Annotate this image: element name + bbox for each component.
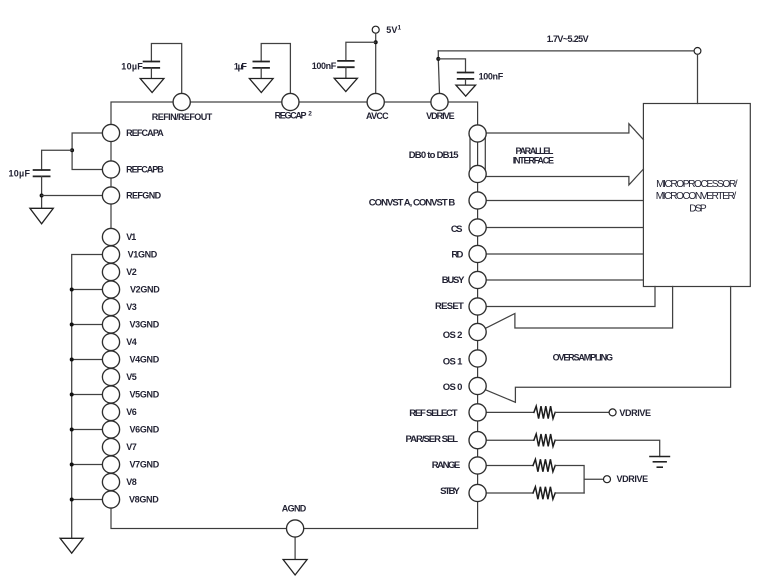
ground VxGND bus (60, 538, 83, 553)
wire parallel bus top (486, 124, 643, 140)
capacitor C2 1uF (253, 62, 269, 68)
wire R4 to junction (555, 492, 584, 494)
wire loop to C5 (42, 150, 73, 170)
wire R3 to junction (555, 466, 584, 494)
svg-text:OS 0: OS 0 (443, 382, 463, 393)
svg-text:10µF: 10µF (121, 61, 143, 71)
svg-text:RD: RD (451, 250, 463, 261)
svg-text:RANGE: RANGE (432, 460, 460, 471)
wire OS0 pennant to box (486, 287, 731, 403)
capacitor C4 100nF (458, 73, 474, 79)
svg-text:REFCAPA: REFCAPA (126, 128, 164, 138)
wire supply to microprocessor box (697, 54, 699, 103)
svg-text:REGCAP: REGCAP (275, 110, 307, 120)
wire V3GND (72, 324, 103, 326)
wire 5V to AVCC (375, 33, 377, 93)
ground AGND (283, 560, 307, 576)
wire parallel bus bottom (486, 169, 644, 185)
bus DB0-DB15 stadium (469, 135, 471, 173)
resistor R3 (533, 459, 555, 471)
svg-text:V5GND: V5GND (130, 390, 160, 400)
junction dot loop (70, 148, 74, 152)
wire V5GND (72, 394, 103, 396)
svg-text:INTERFACE: INTERFACE (513, 156, 554, 166)
svg-text:1: 1 (398, 24, 402, 31)
wire V1GND bus (72, 255, 103, 539)
pin circles left: REFCAPA REFCAPB REFGND V1-V8GND (102, 124, 119, 508)
wire C1 to ground (150, 68, 152, 79)
wire REFIN/REFOUT to C1 (151, 44, 181, 94)
junction dots VxGND bus (70, 288, 74, 502)
terminal 1.7V~5.25V (694, 48, 701, 55)
svg-text:V8: V8 (126, 477, 137, 487)
wire OS2 pennant to box (486, 287, 673, 329)
wire V4GND (72, 359, 103, 361)
pin circles top: REFIN REGCAP AVCC VDRIVE (173, 93, 448, 110)
svg-text:100nF: 100nF (479, 71, 504, 81)
wire junction to VDRIVE terminal (584, 478, 603, 480)
wire V6GND (72, 429, 103, 431)
ground under C4 (456, 85, 476, 96)
svg-text:REFCAPB: REFCAPB (126, 165, 164, 175)
svg-text:PAR/SER SEL: PAR/SER SEL (406, 434, 459, 445)
svg-text:V1: V1 (126, 232, 136, 242)
wire RESET to box (486, 287, 655, 307)
wire REGCAP to C2 (261, 44, 290, 94)
svg-text:VDRIVE: VDRIVE (617, 474, 649, 484)
resistor R4 (533, 487, 555, 499)
svg-text:2: 2 (308, 111, 312, 118)
svg-text:V5: V5 (126, 372, 137, 382)
svg-text:V7GND: V7GND (130, 460, 160, 470)
resistor R1 (534, 406, 555, 418)
svg-text:REFIN/REFOUT: REFIN/REFOUT (152, 112, 213, 122)
junction dot VDRIVE branch (436, 57, 440, 61)
terminal VDRIVE (REF SELECT) (609, 409, 616, 416)
wire CS to box (486, 227, 643, 229)
wire RD to box (486, 253, 643, 255)
svg-text:V2GND: V2GND (130, 285, 160, 295)
pin circles right (469, 125, 486, 502)
svg-text:V4: V4 (126, 337, 137, 347)
svg-text:5V: 5V (386, 25, 397, 35)
resistor R2 (534, 434, 555, 446)
svg-text:VDRIVE: VDRIVE (619, 408, 651, 418)
svg-text:OS 2: OS 2 (443, 330, 463, 341)
svg-text:MICROPROCESSOR/: MICROPROCESSOR/ (656, 179, 738, 190)
wire C2 to ground (260, 68, 262, 79)
svg-text:OVERSAMPLING: OVERSAMPLING (553, 353, 613, 363)
wire PAR/SER SEL to R2 (486, 439, 534, 441)
junction dot REFGND (40, 194, 44, 198)
svg-text:V7: V7 (126, 442, 137, 452)
svg-text:1.7V~5.25V: 1.7V~5.25V (547, 34, 589, 44)
terminal VDRIVE (RANGE/STBY) (604, 476, 611, 483)
svg-text:V6: V6 (126, 407, 137, 417)
net 1.7V~5.25V supply line (438, 50, 697, 52)
svg-text:REFGND: REFGND (126, 191, 162, 201)
wire REFGND pin (42, 195, 103, 197)
ground under C2 (249, 79, 273, 93)
wire to C3 (346, 42, 376, 61)
chip U1 (ADC) body (111, 102, 478, 529)
svg-text:MICROCONVERTER/: MICROCONVERTER/ (656, 191, 737, 202)
svg-text:V3: V3 (126, 302, 137, 312)
capacitor C5 10uF (34, 170, 50, 176)
svg-text:RESET: RESET (435, 301, 464, 312)
wire to C4 (438, 59, 465, 73)
svg-text:PARALLEL: PARALLEL (516, 146, 554, 156)
svg-text:CONVST A, CONVST B: CONVST A, CONVST B (369, 198, 456, 209)
svg-text:VDRIVE: VDRIVE (426, 111, 455, 121)
wire AGND to ground (294, 537, 296, 559)
wire V8GND (72, 499, 103, 501)
svg-text:10µF: 10µF (9, 169, 31, 179)
svg-text:AVCC: AVCC (366, 111, 389, 121)
svg-text:V3GND: V3GND (130, 320, 160, 330)
capacitor C1 10uF (144, 62, 160, 68)
svg-text:REF SELECT: REF SELECT (409, 408, 457, 419)
svg-text:100nF: 100nF (312, 61, 337, 71)
wire CONVST to box (486, 200, 643, 202)
microprocessor box U2 (643, 104, 750, 287)
svg-text:V8GND: V8GND (129, 495, 159, 505)
svg-text:AGND: AGND (282, 503, 307, 513)
ground under C3 (334, 78, 357, 91)
wire C4 to ground (465, 79, 467, 85)
svg-text:V1GND: V1GND (128, 250, 158, 260)
junction dot AVCC branch (374, 40, 378, 44)
wire supply to VDRIVE pin (438, 51, 439, 94)
svg-text:DSP: DSP (689, 203, 707, 214)
terminal 5V supply (372, 26, 379, 33)
svg-text:OS 1: OS 1 (443, 357, 463, 368)
capacitor C3 100nF (338, 61, 354, 67)
wire R1 to VDRIVE terminal (555, 411, 609, 413)
wire C5 to REFGND (41, 176, 43, 208)
wire REF SELECT to R1 (486, 411, 534, 413)
wire V7GND (72, 464, 103, 466)
wire STBY to R4 (486, 492, 533, 494)
svg-text:STBY: STBY (440, 486, 460, 497)
wire REFCAPA/REFCAPB loop (72, 133, 102, 170)
svg-text:V6GND: V6GND (130, 425, 160, 435)
wire RANGE to R3 (486, 465, 533, 467)
svg-text:DB0 to DB15: DB0 to DB15 (409, 150, 460, 161)
wire BUSY to box (486, 279, 643, 281)
label MICROPROCESSOR/MICROCONVERTER/DSP (656, 179, 738, 214)
svg-text:V2: V2 (126, 267, 137, 277)
wire R2 to signal ground (555, 440, 660, 456)
svg-text:1µF: 1µF (234, 61, 248, 71)
pin circle bottom: AGND (287, 520, 304, 537)
ground under C1 (140, 79, 164, 93)
signal ground (PAR/SER SEL) (650, 457, 669, 468)
wire V2GND (72, 289, 103, 291)
svg-text:V4GND: V4GND (130, 355, 160, 365)
svg-text:BUSY: BUSY (442, 275, 465, 286)
wire C3 to ground (345, 67, 347, 78)
ground under C5 (30, 208, 53, 224)
svg-text:CS: CS (451, 224, 463, 235)
